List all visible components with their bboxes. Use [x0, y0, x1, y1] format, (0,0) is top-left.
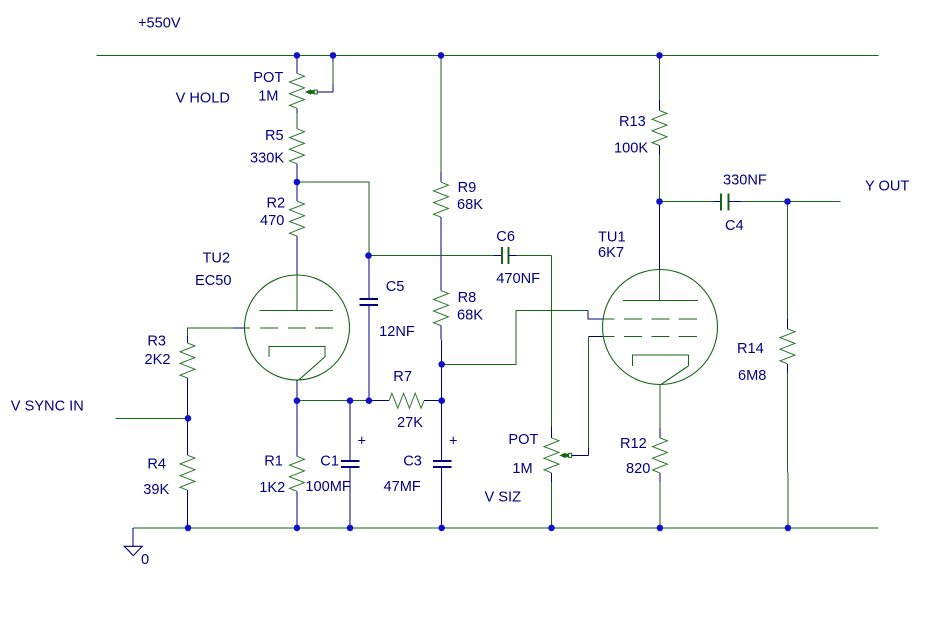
svg-text:470NF: 470NF	[496, 271, 540, 287]
svg-text:R13: R13	[619, 114, 646, 130]
tube TU1 6K7	[598, 229, 718, 384]
svg-text:330K: 330K	[250, 151, 284, 167]
svg-text:820: 820	[626, 461, 650, 477]
svg-text:68K: 68K	[457, 197, 483, 213]
node Y OUT junction	[784, 198, 791, 205]
svg-text:330NF: 330NF	[723, 173, 767, 189]
svg-text:POT: POT	[508, 432, 538, 448]
svg-text:V SIZ: V SIZ	[485, 490, 522, 506]
pin R8 to row400	[441, 364, 443, 400]
wire node to C5	[297, 182, 369, 256]
svg-text:1K2: 1K2	[259, 480, 285, 496]
tube TU2 EC50	[195, 251, 350, 381]
svg-text:100MF: 100MF	[305, 479, 351, 495]
svg-text:6M8: 6M8	[738, 368, 766, 384]
potentiometer POT 1M (V SIZ)	[508, 427, 559, 528]
node bottom rail C1	[347, 525, 354, 532]
resistor R1 1K2	[259, 401, 304, 528]
svg-text:68K: 68K	[457, 308, 483, 324]
wire V SIZ wiper to TU1 grid2	[559, 337, 603, 459]
svg-text:R14: R14	[737, 341, 764, 357]
node TU1 anode junction	[656, 198, 663, 205]
svg-text:C4: C4	[725, 218, 744, 234]
svg-text:TU2: TU2	[203, 251, 231, 267]
resistor R12 820	[620, 436, 667, 528]
svg-text:POT: POT	[253, 70, 283, 86]
node bottom rail R1	[294, 525, 301, 532]
capacitor C5 12NF	[359, 256, 414, 401]
svg-text:0: 0	[141, 552, 149, 568]
svg-text:R4: R4	[147, 456, 166, 472]
wire V SYNC IN input	[115, 417, 188, 419]
node top rail R13	[656, 52, 663, 59]
svg-text:R8: R8	[458, 290, 477, 306]
svg-text:R3: R3	[147, 333, 166, 349]
capacitor C4 330NF	[660, 173, 788, 235]
resistor R13 100K	[614, 55, 667, 201]
svg-text:+550V: +550V	[138, 16, 181, 32]
wire top +550V rail	[97, 54, 879, 56]
svg-text:R5: R5	[265, 128, 284, 144]
svg-text:100K: 100K	[614, 141, 648, 157]
svg-text:+: +	[358, 434, 367, 450]
svg-text:EC50: EC50	[195, 273, 232, 289]
svg-text:R2: R2	[267, 196, 286, 212]
node bottom rail R14	[785, 525, 792, 532]
svg-text:39K: 39K	[143, 482, 169, 498]
wire Y OUT	[788, 201, 841, 203]
svg-text:R9: R9	[458, 180, 477, 196]
svg-text:TU1: TU1	[598, 229, 626, 245]
svg-text:470: 470	[260, 213, 284, 229]
svg-text:1M: 1M	[258, 88, 278, 104]
svg-text:+: +	[449, 434, 458, 450]
svg-text:Y OUT: Y OUT	[865, 179, 909, 195]
svg-text:12NF: 12NF	[379, 324, 415, 340]
resistor R8 68K	[434, 290, 484, 364]
potentiometer POT 1M (V HOLD)	[253, 55, 304, 128]
wire cathode row y400	[297, 400, 369, 402]
resistor R7 27K	[369, 369, 442, 431]
node bottom rail POT V SIZ	[548, 525, 555, 532]
wire bottom ground rail	[133, 527, 879, 529]
svg-text:27K: 27K	[397, 415, 423, 431]
svg-text:47MF: 47MF	[384, 479, 421, 495]
svg-text:C5: C5	[386, 279, 405, 295]
wire POT wiper to rail	[305, 55, 333, 94]
svg-text:R1: R1	[264, 453, 283, 469]
node row400 c	[366, 397, 373, 404]
node R5/R2 junction	[294, 179, 301, 186]
svg-text:C1: C1	[320, 453, 339, 469]
svg-text:V SYNC IN: V SYNC IN	[11, 399, 84, 415]
node top rail R9	[438, 52, 445, 59]
node bottom rail R4	[185, 525, 192, 532]
pin TU2 grid stub	[233, 327, 245, 329]
svg-text:C6: C6	[496, 229, 515, 245]
resistor R4 39K	[143, 418, 195, 528]
capacitor C1 100MF	[305, 401, 366, 528]
wire TU2 grid to R3	[188, 328, 234, 336]
resistor R14 6M8	[737, 202, 795, 528]
pin TU1 cathode	[659, 385, 661, 438]
node bottom rail C3	[438, 525, 445, 532]
svg-text:C3: C3	[403, 453, 422, 469]
resistor R5 330K	[250, 128, 305, 182]
pin TU1 anode	[659, 202, 661, 270]
svg-text:2K2: 2K2	[145, 352, 171, 368]
node row400 a	[294, 397, 301, 404]
svg-text:R12: R12	[620, 436, 647, 452]
svg-text:V HOLD: V HOLD	[176, 90, 230, 106]
node C5/C6 junction	[365, 252, 372, 259]
node row400 b	[347, 397, 354, 404]
node row400 d	[438, 397, 445, 404]
resistor R2 470	[260, 182, 305, 275]
svg-text:6K7: 6K7	[598, 245, 624, 261]
node R8 bottom junction	[438, 361, 445, 368]
wire C6 to POT V SIZ	[551, 256, 553, 427]
node V SYNC IN junction	[185, 415, 192, 422]
svg-text:1M: 1M	[512, 461, 532, 477]
resistor R3 2K2	[145, 333, 196, 418]
capacitor C3 47MF	[384, 401, 458, 528]
wire grid1 TU1 from R8 node	[442, 311, 589, 365]
pin TU2 cathode	[296, 380, 298, 401]
node top rail wiper	[330, 52, 337, 59]
svg-text:R7: R7	[393, 369, 412, 385]
capacitor C6 470NF	[369, 229, 552, 287]
pin TU1 grid1 stub	[588, 311, 603, 319]
resistor R9 68K	[434, 55, 484, 290]
node bottom rail R12	[657, 525, 664, 532]
node top rail POT	[294, 52, 301, 59]
ground	[124, 528, 149, 568]
